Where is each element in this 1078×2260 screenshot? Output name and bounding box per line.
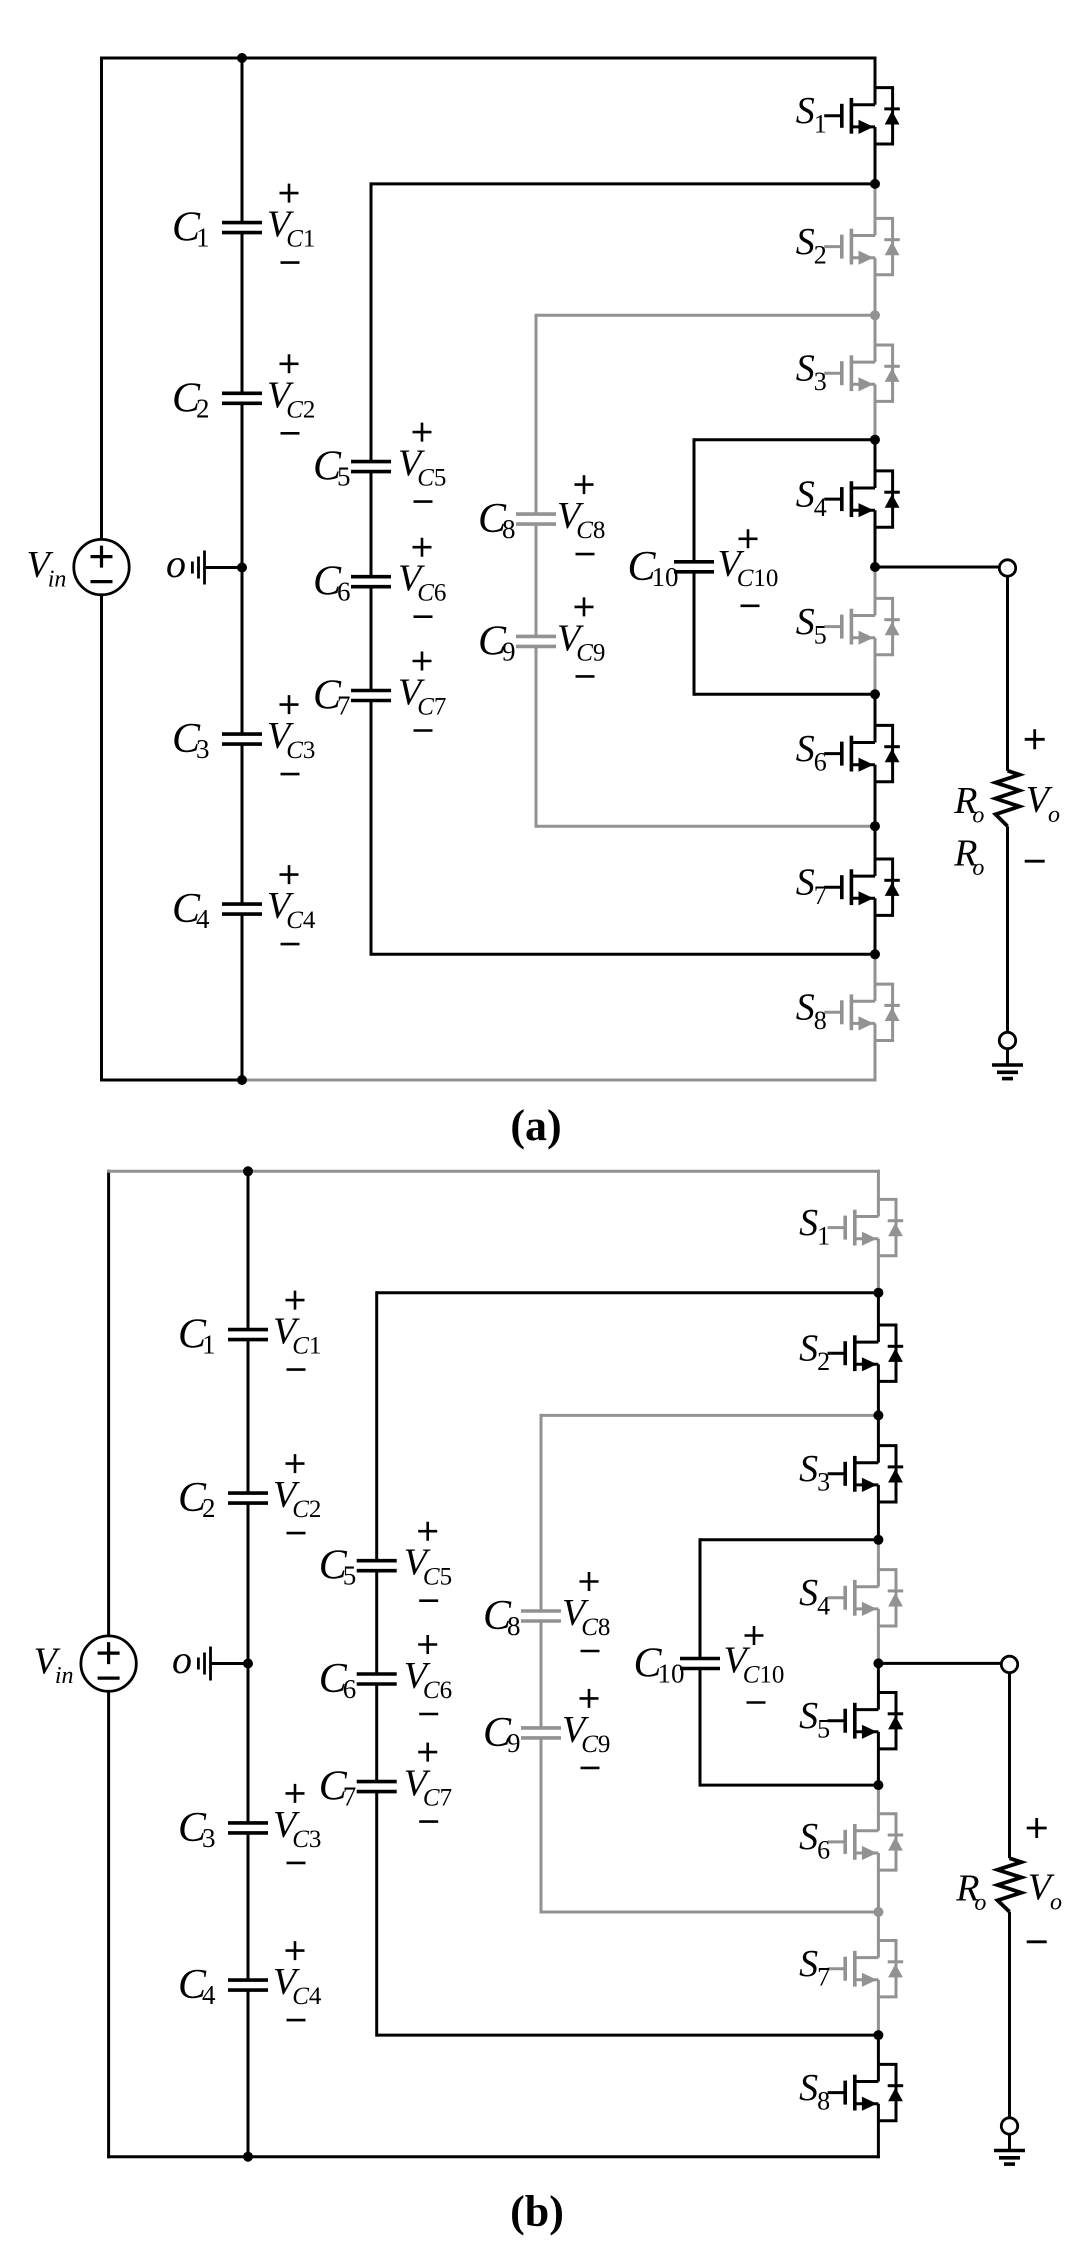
transistor switch S4 (MOSFET with body diode)	[828, 1570, 904, 1626]
label S8	[799, 2067, 830, 2115]
label S7	[799, 1943, 830, 1991]
capacitor C1	[172, 205, 262, 253]
junction: S5-S6 node (C10 bottom)	[870, 689, 880, 699]
wire: C5 string vertical segments	[370, 182, 373, 461]
value label V_C4 with polarity	[273, 1941, 322, 2020]
wire: C1 to C2	[247, 1340, 250, 1494]
wire: C8 string vertical segments (gray)	[540, 1414, 543, 1611]
junction: S3-S4 node (C10 top)	[873, 1535, 883, 1545]
wire: bottom rail from junction to switch column	[242, 1079, 877, 1082]
capacitor C8	[483, 1593, 561, 1641]
junction: output node	[873, 1658, 883, 1668]
voltage source Vin	[81, 1636, 136, 1691]
capacitor C2	[172, 375, 262, 423]
value label V_C2 with polarity	[273, 1454, 321, 1533]
capacitor C10	[628, 544, 715, 592]
junction: S5-S6 node (C10 bottom)	[873, 1780, 883, 1790]
capacitor C9	[478, 618, 556, 666]
label Vo with polarity	[1025, 729, 1060, 861]
wire: C4 to bottom rail	[241, 914, 244, 1080]
wire: Vin negative lead down the left rail	[107, 1691, 110, 2158]
wire: top rail from Vin to switch column	[107, 1170, 880, 1173]
wire: C4 to bottom rail	[247, 1990, 250, 2157]
wire: bottom terminal to earth ground	[1008, 2134, 1011, 2151]
wire: switch column rail segments	[877, 1170, 880, 2158]
label S7	[796, 862, 827, 910]
svg-text:(a): (a)	[510, 1101, 561, 1150]
wire: C2 to node o	[241, 403, 244, 567]
transistor switch S6 (MOSFET with body diode)	[828, 1814, 904, 1870]
wire: branch bottom from C7 string to switch node	[377, 2034, 879, 2037]
transistor switch S2 (MOSFET with body diode)	[828, 1325, 904, 1381]
value label V_C5 with polarity	[398, 423, 446, 502]
capacitor C3	[172, 716, 262, 764]
junction: S6-S7 node	[870, 821, 880, 831]
wire: resistor Ro to bottom terminal	[1008, 1912, 1011, 2118]
transistor switch S5 (MOSFET with body diode)	[828, 1693, 904, 1749]
junction: bottom rail / main capacitor string	[243, 2152, 253, 2162]
junction: output node	[870, 562, 880, 572]
output terminal (top)	[999, 560, 1015, 576]
label Vin	[34, 1641, 74, 1690]
svg-text:o: o	[172, 1637, 192, 1682]
wire: branch top from C8 string to switch node (gray)	[536, 314, 875, 317]
label S2	[796, 221, 827, 269]
output terminal (bottom)	[999, 1032, 1015, 1048]
junction: bottom rail / main capacitor string	[237, 1075, 247, 1085]
output terminal (bottom)	[1001, 2118, 1017, 2134]
label Ro	[955, 1867, 986, 1916]
output terminal (top)	[1001, 1656, 1017, 1672]
node o reference ground	[172, 1637, 248, 1682]
label S5	[799, 1695, 830, 1743]
wire: node o to C3	[247, 1664, 250, 1823]
junction: S2-S3 node	[873, 1410, 883, 1420]
wire: switch column rail segments	[874, 57, 877, 1082]
label S3	[799, 1448, 830, 1496]
svg-text:o: o	[166, 541, 186, 586]
wire: branch top from C8 string to switch node (gray)	[541, 1414, 878, 1417]
transistor switch S3 (MOSFET with body diode)	[828, 1446, 904, 1502]
resistor Ro	[998, 1858, 1022, 1912]
label Vo with polarity	[1027, 1818, 1062, 1942]
wire: C10 top connection	[700, 1538, 878, 1541]
junction: S6-S7 node	[873, 1907, 883, 1917]
wire: resistor Ro to bottom terminal	[1006, 826, 1009, 1032]
transistor switch S4 (MOSFET with body diode)	[824, 471, 900, 527]
label Ro	[953, 780, 984, 829]
label S5	[796, 601, 827, 649]
wire: branch top from C5 string to switch node	[371, 182, 875, 185]
capacitor C7	[319, 1764, 397, 1812]
value label V_C1 with polarity	[273, 1291, 321, 1370]
transistor switch S2 (MOSFET with body diode)	[824, 218, 900, 274]
value label V_C3 with polarity	[267, 695, 315, 774]
wire: output node to output terminal	[878, 1662, 1001, 1665]
earth ground	[992, 1065, 1023, 1079]
capacitor C9	[483, 1710, 561, 1758]
svg-text:(b): (b)	[510, 2187, 564, 2236]
node o reference ground	[166, 541, 242, 586]
wire: node o to C3	[241, 568, 244, 735]
wire: bottom rail from Vin to junction	[107, 2155, 248, 2158]
label S8	[796, 987, 827, 1035]
transistor switch S6 (MOSFET with body diode)	[824, 725, 900, 781]
capacitor C7	[313, 673, 391, 721]
label S4	[799, 1572, 830, 1620]
wire: output node to output terminal	[875, 566, 1000, 569]
earth ground	[994, 2151, 1025, 2165]
junction: node o on main string	[243, 1659, 253, 1669]
capacitor C3	[178, 1805, 268, 1853]
capacitor C4	[178, 1962, 268, 2010]
label S3	[796, 348, 827, 396]
capacitor C6	[319, 1656, 397, 1704]
junction: node o on main string	[237, 563, 247, 573]
value label V_C2 with polarity	[267, 354, 315, 433]
value label V_C8 with polarity	[557, 475, 605, 554]
wire: C1 to C2	[241, 233, 244, 394]
wire: top rail from Vin to switch column	[100, 57, 877, 60]
junction: S7-S8 node	[873, 2030, 883, 2040]
junction: top rail / main capacitor string	[243, 1166, 253, 1176]
voltage source Vin	[74, 539, 129, 594]
wire: C10 bottom connection	[700, 1784, 878, 1787]
wire: terminal down to resistor Ro	[1008, 1672, 1011, 1858]
label S6	[796, 728, 827, 776]
wire: Vin positive lead up the left rail	[107, 1170, 110, 1636]
label S1	[799, 1202, 830, 1250]
label Vin	[27, 544, 67, 593]
value label V_C7 with polarity	[404, 1743, 452, 1822]
capacitor C4	[172, 886, 262, 934]
value label V_C9 with polarity	[557, 597, 605, 676]
wire: main string from top rail to C1	[247, 1171, 250, 1329]
wire: C5 string vertical segments	[375, 1291, 378, 1561]
value label V_C5 with polarity	[404, 1522, 452, 1601]
junction: S3-S4 node (C10 top)	[870, 435, 880, 445]
transistor switch S8 (MOSFET with body diode)	[828, 2064, 904, 2120]
wire: C10 vertical leads	[693, 438, 696, 562]
wire: branch top from C5 string to switch node	[377, 1291, 879, 1294]
value label V_C6 with polarity	[398, 538, 446, 617]
wire: terminal down to resistor Ro	[1006, 576, 1009, 771]
wire: bottom terminal to earth ground	[1006, 1049, 1009, 1066]
junction: S7-S8 node	[870, 949, 880, 959]
value label V_C10 with polarity	[718, 529, 779, 606]
transistor switch S1 (MOSFET with body diode)	[828, 1199, 904, 1255]
value label V_C10 with polarity	[724, 1626, 785, 1703]
junction: top rail / main capacitor string	[237, 53, 247, 63]
wire: C10 top connection	[694, 438, 875, 441]
wire: C10 vertical leads	[699, 1538, 702, 1658]
capacitor C10	[634, 1641, 721, 1689]
capacitor C2	[178, 1475, 268, 1523]
transistor switch S3 (MOSFET with body diode)	[824, 345, 900, 401]
wire: C3 to C4	[247, 1833, 250, 1980]
transistor switch S5 (MOSFET with body diode)	[824, 598, 900, 654]
capacitor C1	[178, 1312, 268, 1360]
wire: branch bottom from C9 string to switch node (gray)	[536, 825, 875, 828]
value label V_C8 with polarity	[562, 1572, 610, 1651]
wire: C8 string vertical segments (gray)	[535, 314, 538, 514]
wire: C2 to node o	[247, 1503, 250, 1663]
label S2	[799, 1328, 830, 1376]
capacitor C8	[478, 496, 556, 544]
wire: C3 to C4	[241, 744, 244, 904]
wire: branch bottom from C9 string to switch node (gray)	[541, 1911, 878, 1914]
value label V_C4 with polarity	[267, 865, 316, 944]
junction: S1-S2 node	[873, 1288, 883, 1298]
wire: Vin negative lead down the left rail	[100, 595, 103, 1082]
junction: S2-S3 node	[870, 310, 880, 320]
transistor switch S7 (MOSFET with body diode)	[824, 859, 900, 915]
label S4	[796, 473, 827, 521]
wire: main string from top rail to C1	[241, 58, 244, 223]
label Ro (second)	[953, 832, 984, 881]
value label V_C6 with polarity	[404, 1635, 452, 1714]
capacitor C5	[319, 1543, 397, 1591]
wire: Vin positive lead up the left rail	[100, 57, 103, 540]
value label V_C1 with polarity	[267, 184, 315, 263]
value label V_C9 with polarity	[562, 1689, 610, 1768]
junction: S1-S2 node	[870, 179, 880, 189]
wire: branch bottom from C7 string to switch node	[371, 953, 875, 956]
label S6	[799, 1816, 830, 1864]
capacitor C6	[313, 559, 391, 607]
transistor switch S8 (MOSFET with body diode)	[824, 984, 900, 1040]
label S1	[796, 90, 827, 138]
capacitor C5	[313, 444, 391, 492]
wire: bottom rail from junction to switch column	[248, 2155, 880, 2158]
value label V_C3 with polarity	[273, 1784, 321, 1863]
transistor switch S1 (MOSFET with body diode)	[824, 88, 900, 144]
transistor switch S7 (MOSFET with body diode)	[828, 1941, 904, 1997]
wire: bottom rail from Vin to junction	[100, 1079, 242, 1082]
wire: C10 bottom connection	[694, 693, 875, 696]
value label V_C7 with polarity	[398, 652, 446, 731]
resistor Ro	[996, 771, 1020, 827]
